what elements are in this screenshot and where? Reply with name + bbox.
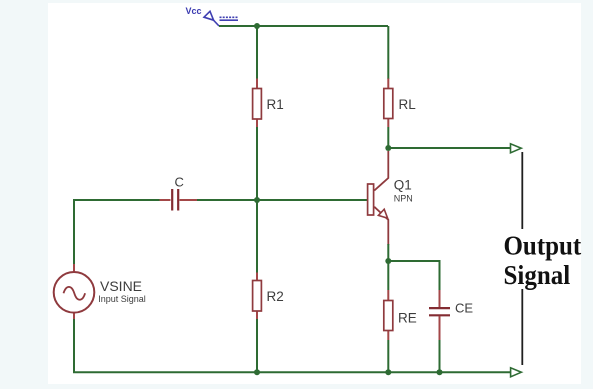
svg-text:NPN: NPN (394, 193, 413, 203)
node: CE/ground junction (437, 369, 443, 375)
resistor R2 (253, 273, 262, 320)
wire: base node to transistor base (257, 199, 369, 201)
svg-text:R2: R2 (267, 289, 284, 304)
svg-text:R1: R1 (267, 97, 284, 112)
node: collector junction (385, 145, 391, 151)
wire: CE to ground rail (439, 340, 441, 372)
svg-text:Signal: Signal (503, 260, 570, 290)
svg-text:Q1: Q1 (394, 178, 412, 193)
capacitor CE (429, 290, 450, 340)
output bracket line top (521, 152, 523, 229)
svg-text:Vcc: Vcc (186, 6, 202, 16)
node: base junction (254, 197, 260, 203)
wire: emitter node to CE branch (388, 261, 439, 290)
node: emitter junction (385, 258, 391, 264)
node: RE/ground junction (385, 369, 391, 375)
node: rail/R1 junction (254, 23, 260, 29)
terminal arrow: output top (511, 144, 522, 153)
wire: rail down to RL (387, 26, 389, 79)
terminal arrow: output bottom (511, 368, 522, 377)
resistor R1 (253, 79, 262, 128)
svg-text:C: C (175, 175, 184, 190)
svg-text:Input Signal: Input Signal (98, 294, 146, 304)
wire: VSINE up to C (74, 200, 160, 264)
wire: R2 to ground rail (256, 319, 258, 372)
wire: emitter down to emitter node (387, 244, 389, 261)
wire: emitter node down to RE (387, 261, 389, 290)
svg-text:RL: RL (399, 97, 417, 112)
svg-text:RE: RE (398, 311, 417, 326)
transistor Q1 (368, 151, 389, 245)
wire: C to base node (197, 199, 257, 201)
svg-text:CE: CE (455, 301, 473, 316)
output bracket line bottom (521, 289, 523, 365)
wire: R1 to base node (256, 127, 258, 200)
source VSINE (54, 264, 95, 319)
node: R2/ground junction (254, 369, 260, 375)
capacitor C (160, 189, 198, 211)
wire: rail down to R1 (256, 26, 258, 79)
wire: collector node to output arrow (388, 147, 510, 149)
svg-text:Output: Output (503, 231, 581, 261)
svg-text:VSINE: VSINE (100, 278, 142, 294)
wire: RE to ground rail (387, 340, 389, 372)
resistor RE (384, 290, 393, 340)
resistor RL (384, 79, 393, 128)
wire: Vcc rail (219, 25, 388, 27)
wire: ground rail (74, 319, 511, 372)
wire: RL to collector node (387, 127, 389, 148)
power terminal Vcc (204, 11, 238, 26)
wire: base node down to R2 (256, 200, 258, 273)
